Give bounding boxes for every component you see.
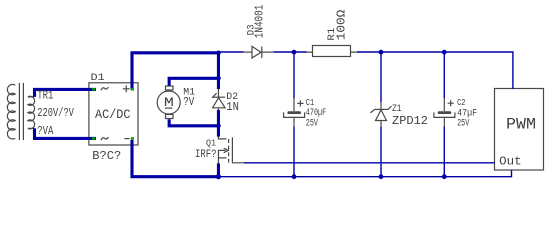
svg-text:ZPD12: ZPD12 bbox=[392, 114, 428, 128]
svg-text:220V/?V: 220V/?V bbox=[37, 107, 74, 120]
svg-text:?VA: ?VA bbox=[37, 125, 53, 138]
svg-text:1N: 1N bbox=[226, 101, 239, 114]
svg-text:IRF?: IRF? bbox=[195, 149, 217, 161]
svg-text:Q1: Q1 bbox=[206, 137, 216, 148]
svg-text:Out: Out bbox=[499, 155, 522, 169]
svg-text:PWM: PWM bbox=[506, 116, 536, 134]
svg-text:25V: 25V bbox=[306, 117, 319, 129]
svg-text:AC/DC: AC/DC bbox=[95, 108, 131, 122]
svg-text:D1: D1 bbox=[91, 73, 105, 84]
svg-text:?V: ?V bbox=[183, 96, 194, 109]
svg-text:M: M bbox=[164, 95, 174, 110]
svg-text:25V: 25V bbox=[457, 117, 470, 129]
svg-text:1N4001: 1N4001 bbox=[253, 5, 267, 39]
svg-text:B?C?: B?C? bbox=[92, 149, 121, 163]
svg-text:100Ω: 100Ω bbox=[334, 10, 348, 41]
svg-text:TR1: TR1 bbox=[37, 90, 53, 103]
